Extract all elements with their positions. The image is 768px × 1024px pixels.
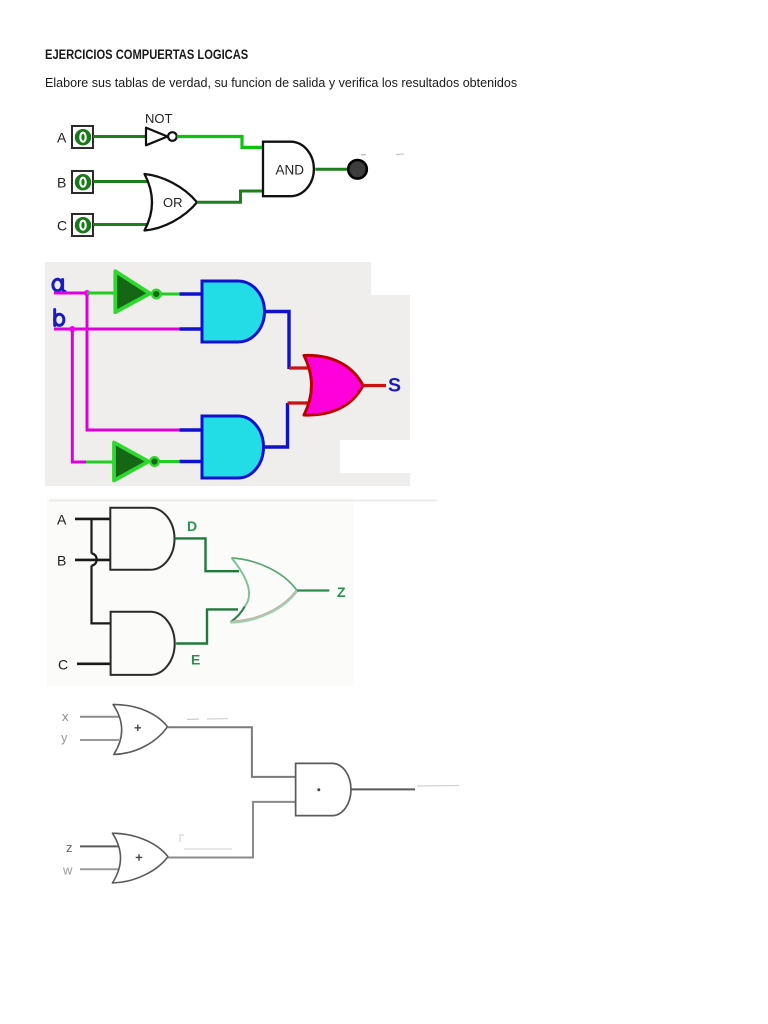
svg-text:B: B (57, 553, 66, 569)
AND gate P3 (296, 763, 351, 815)
wire Z (297, 589, 329, 591)
node A label (57, 130, 67, 146)
wire w (80, 868, 120, 870)
svg-text:z: z (66, 840, 73, 855)
wire b to AND1 blue (180, 327, 203, 330)
wire x (80, 716, 119, 718)
wire OR1 out (168, 727, 296, 777)
wire a vertical (86, 293, 89, 432)
svg-text:A: A (57, 130, 67, 146)
node a label (53, 279, 65, 291)
node A label (57, 512, 67, 528)
wire NOT1 out green (161, 293, 180, 296)
junction a (84, 290, 90, 296)
svg-text:E: E (191, 652, 200, 668)
wire NOT2 to AND2 blue (180, 460, 203, 463)
svg-text:B: B (57, 175, 66, 191)
svg-text:Z: Z (337, 584, 346, 600)
artifact dash (207, 718, 228, 720)
OR gate G3 (magenta) (304, 355, 363, 415)
wire A branch vertical (90, 519, 92, 554)
AND gate A1 (110, 508, 174, 570)
node D label (187, 518, 197, 534)
OR gate P2 (112, 833, 168, 883)
artifact dash (396, 153, 404, 156)
wire z (80, 845, 120, 847)
OR gate P1 (113, 704, 167, 754)
OR gate O1 (230, 558, 297, 622)
wire green into NOT2 (86, 461, 115, 464)
wire B (75, 559, 110, 562)
NOT gate U1 (146, 128, 177, 146)
NOT gate U1 label (145, 111, 173, 126)
wire NOT1 to AND1 blue (180, 292, 203, 295)
wire AND1 out (265, 312, 290, 370)
wire b branch to NOT2 (magenta) (72, 461, 87, 464)
wire y (80, 739, 119, 741)
crossover hop (92, 554, 97, 566)
node z label (66, 840, 73, 855)
node B label (57, 175, 66, 191)
svg-text:A: A (57, 512, 67, 528)
wire OR2 out (168, 802, 296, 858)
wire D (175, 538, 240, 571)
input pin C (72, 214, 93, 236)
wire C to OR (93, 223, 150, 226)
node Z label (337, 584, 346, 600)
wire E (176, 609, 238, 643)
wire a to NOT1 (87, 292, 116, 295)
wire AND2 out (264, 403, 288, 447)
NOT gate N1 (115, 271, 160, 312)
NOT gate N2 (114, 443, 159, 481)
wire vertical to AND2 (92, 566, 111, 624)
OR gate U2 (145, 174, 198, 231)
svg-text:x: x (62, 709, 69, 724)
wire NOT to AND (high, bright green) (177, 137, 263, 148)
svg-text:NOT: NOT (145, 111, 173, 126)
AND gate A2 (111, 612, 175, 675)
wire b vertical (71, 329, 74, 464)
svg-text:y: y (61, 730, 68, 745)
node E label (191, 652, 200, 668)
wire A to NOT (93, 135, 147, 138)
input pin A (72, 126, 93, 148)
wire OR to AND (197, 191, 263, 202)
image background (45, 262, 410, 486)
artifact dash (361, 154, 366, 157)
junction b (69, 326, 75, 332)
svg-text:S: S (388, 374, 401, 396)
artifact dash (187, 718, 199, 721)
svg-text:C: C (57, 218, 67, 234)
wire A (75, 518, 110, 521)
wire red to OR bottom input (288, 401, 313, 404)
artifact dash (184, 848, 232, 850)
node y label (61, 730, 68, 745)
LED probe output (348, 160, 367, 179)
wire AND to LED (315, 168, 348, 171)
wire NOT2 out green (159, 460, 180, 463)
image background (47, 497, 437, 686)
wire a (54, 292, 88, 295)
node S label (388, 374, 401, 396)
wire b (54, 328, 180, 331)
svg-text:w: w (62, 863, 73, 878)
wire S output (363, 384, 386, 387)
wire a branch to AND2 (magenta) (87, 429, 180, 432)
artifact mark (180, 835, 184, 842)
wire to AND2 top blue (180, 428, 203, 431)
node b label (55, 310, 64, 326)
svg-text:AND: AND (276, 163, 305, 178)
wire red to OR top input (289, 366, 312, 369)
node C label (57, 218, 67, 234)
title (45, 47, 248, 62)
artifact dash (417, 785, 459, 788)
node w label (62, 863, 73, 878)
node B label (57, 553, 66, 569)
AND gate G2 (cyan) (202, 416, 264, 478)
AND gate U3 (263, 142, 314, 197)
svg-text:OR: OR (163, 195, 183, 210)
svg-text:D: D (187, 518, 197, 534)
node C label (58, 657, 68, 673)
AND gate G1 (cyan) (202, 281, 265, 342)
wire B to OR (93, 180, 150, 183)
svg-text:C: C (58, 657, 68, 673)
node x label (62, 709, 69, 724)
wire C (77, 662, 111, 665)
wire AND out (351, 788, 415, 790)
input pin B (72, 171, 93, 193)
subtitle (45, 75, 517, 90)
